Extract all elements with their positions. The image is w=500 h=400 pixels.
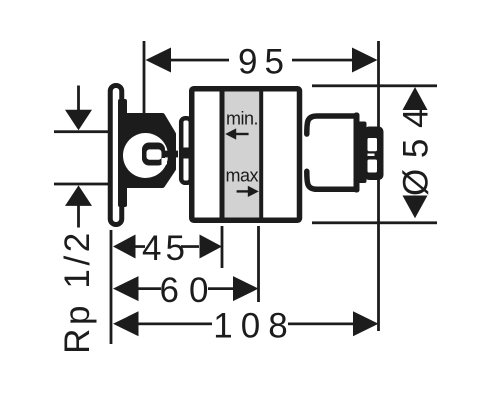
valve body: second step collar [357, 122, 367, 184]
valve body: inlet socket behind nut [118, 99, 127, 207]
valve body: spindle in bore [142, 143, 165, 166]
max arrow [237, 190, 249, 192]
dimension 95 line [160, 59, 229, 62]
valve body: right step flange [303, 114, 356, 192]
valve body: min depth line [220, 89, 225, 220]
Rp 1/2 down arrow [77, 86, 80, 112]
wire: extension line (x=258.5) max-depth [257, 226, 260, 302]
svg-text:Ø 5 4: Ø 5 4 [397, 108, 436, 196]
valve body: cartridge housing outline [192, 89, 300, 221]
svg-text:max.: max. [226, 165, 263, 185]
valve body: nut bore (white circle) [123, 133, 168, 178]
valve body: connector collar between nut and cartridge housing [181, 118, 191, 183]
valve body: hex nut silhouette [121, 116, 174, 186]
dimension 45 left arrowhead [113, 235, 136, 259]
dimension 60 line [133, 287, 161, 290]
wire: extension line (x=222) min-depth [221, 226, 224, 268]
svg-text:108: 108 [213, 306, 295, 345]
svg-text:min.: min. [226, 109, 258, 129]
dimension 95 left arrowhead [146, 48, 172, 73]
valve body: installation depth gray zone [225, 92, 260, 218]
dimension 108 left arrowhead [113, 311, 139, 336]
dimension 95 right arrowhead [352, 48, 378, 73]
wire: extension line left (x=111) for 45/60/108 dims [110, 230, 113, 344]
svg-text:95: 95 [238, 43, 291, 82]
svg-text:Rp 1/2: Rp 1/2 [58, 229, 97, 354]
wire: Rp 1/2 upper gauge line (y=131.7) [54, 130, 109, 133]
Rp 1/2 up arrow [77, 204, 80, 228]
dimension 45 right arrowhead [200, 235, 223, 259]
dimension 60 right arrowhead [233, 276, 259, 301]
min arrow [234, 133, 249, 135]
wire: Rp 1/2 lower gauge line (y=184) [54, 183, 109, 186]
valve body: max depth line [259, 89, 263, 220]
dimension 108 line [138, 323, 212, 326]
dimension diameter-54 up arrowhead [403, 87, 428, 110]
valve body: wall flange plate [110, 86, 122, 225]
dimension diameter-54 label [397, 106, 436, 198]
dimension 108 right arrowhead [353, 311, 379, 336]
wire: extension line top (y=85.8) for diameter 54 [312, 84, 437, 87]
dimension 45 line [130, 245, 145, 248]
dimension 60 left arrowhead [113, 276, 139, 301]
dimension diameter-54 line [414, 95, 417, 210]
wire: extension line right (x=378.5) for 95/108 dims [377, 41, 380, 331]
wire: extension line bottom (y=222.8) for diameter 54 [312, 221, 437, 224]
wire: extension line left (x=144) for 95 dim [143, 41, 146, 113]
dimension diameter-54 down arrowhead [403, 196, 428, 219]
valve body: splined end piece [364, 127, 384, 181]
svg-text:45: 45 [142, 229, 189, 268]
svg-text:60: 60 [160, 271, 219, 310]
